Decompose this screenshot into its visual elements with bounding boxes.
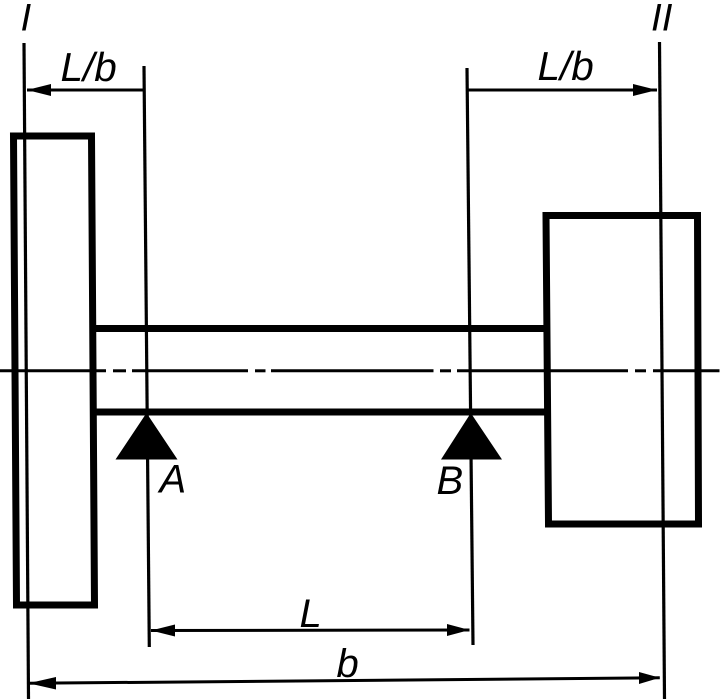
- svg-text:L/b: L/b: [61, 44, 117, 90]
- svg-text:A: A: [158, 458, 187, 502]
- svg-text:B: B: [437, 459, 464, 503]
- svg-text:L: L: [300, 592, 322, 636]
- svg-text:L/b: L/b: [538, 43, 594, 89]
- svg-text:I: I: [21, 0, 32, 40]
- svg-text:II: II: [651, 0, 673, 40]
- svg-text:b: b: [337, 642, 359, 686]
